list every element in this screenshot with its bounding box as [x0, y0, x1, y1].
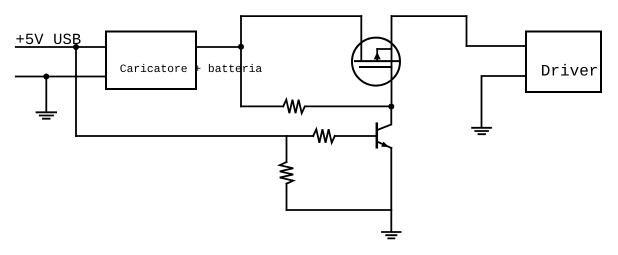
- wire battery rail vertical: [240, 16, 242, 106]
- resistor R1: [283, 100, 305, 114]
- wire pulldown branch vertical: [286, 136, 288, 162]
- mosfet drain jog: [377, 48, 391, 50]
- node junction dot on +5V wire: [73, 44, 79, 50]
- mosfet arrowhead: [374, 52, 381, 59]
- wire lower rail to resistor R1: [241, 105, 283, 107]
- wire R3 to bottom rail: [286, 184, 288, 210]
- wire emitter down to ground: [390, 148, 392, 232]
- mosfet left terminal from top rail: [360, 16, 362, 61]
- mosfet Q1 body circle: [352, 38, 400, 86]
- ground symbol Driver: [472, 128, 491, 134]
- transistor Q2 collector: [378, 107, 391, 130]
- wire into Driver box: [467, 45, 527, 47]
- wire R2 to transistor base: [335, 135, 376, 137]
- node collector junction dot: [388, 104, 394, 110]
- resistor R3 pulldown: [280, 162, 294, 184]
- box Driver: [526, 32, 601, 93]
- wire +5V USB top rail into charger box: [16, 46, 106, 48]
- wire drain rail drop: [466, 16, 468, 46]
- wire top supply rail to MOSFET source: [241, 15, 361, 17]
- transistor Q2 emitter: [378, 142, 391, 148]
- mosfet arrow line: [376, 49, 378, 61]
- ground symbol bottom: [382, 232, 401, 238]
- mosfet right vertical terminal through body: [391, 16, 393, 106]
- mosfet short gate bar: [360, 66, 392, 68]
- transistor Q2 emitter arrowhead: [381, 142, 389, 147]
- svg-text:Driver: Driver: [541, 62, 599, 80]
- wire bottom rail to emitter: [287, 209, 392, 211]
- wire ground stub left: [45, 77, 47, 112]
- node junction dot at battery rail: [238, 44, 244, 50]
- resistor R2 base resistor: [313, 129, 335, 143]
- ground symbol left: [37, 112, 57, 118]
- transistor Q2 base bar: [376, 124, 379, 148]
- wire GND input lower left: [16, 76, 106, 78]
- wire drain rail up and right: [392, 15, 467, 17]
- mosfet long bar: [355, 60, 398, 62]
- wire charger output to battery rail: [196, 46, 241, 48]
- box Caricatore + batteria: [106, 32, 196, 90]
- wire from R1 to collector node: [305, 105, 392, 107]
- wire base row horizontal from +5V drop to resistor R2: [76, 135, 313, 137]
- wire +5V vertical drop to base resistor row: [75, 47, 77, 136]
- node junction dot on GND wire: [43, 74, 49, 80]
- wire Driver ground lead: [482, 76, 527, 127]
